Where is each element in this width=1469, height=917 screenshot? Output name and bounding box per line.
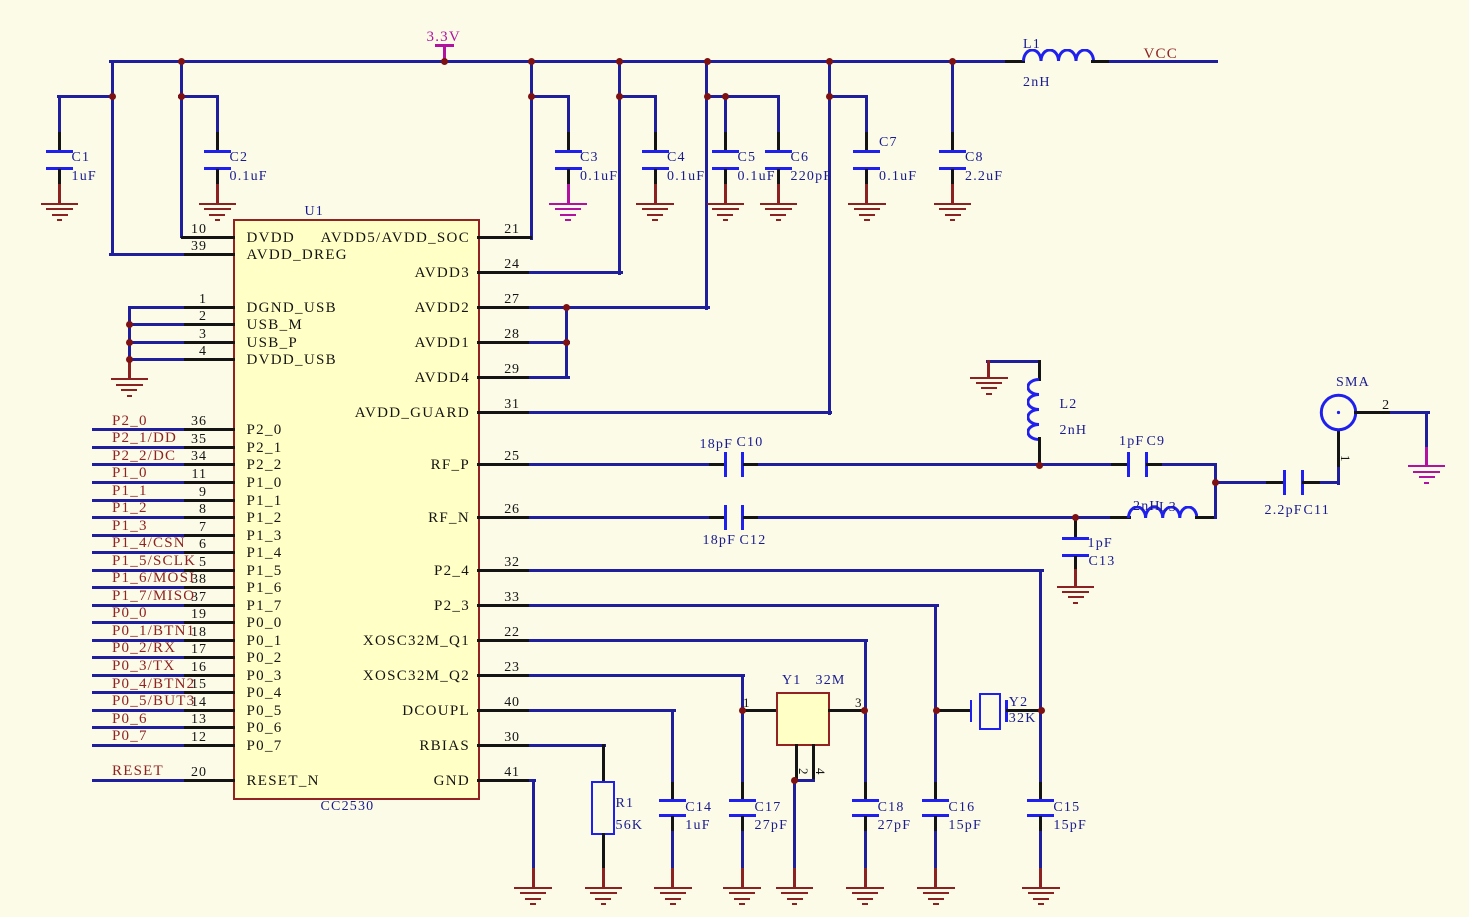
wire C13 top — [1074, 516, 1077, 523]
node P0_0 net label — [112, 606, 148, 620]
wire net P0_5/BUT3 — [92, 709, 184, 712]
wire XOSC32M_Q2 to corner — [529, 674, 745, 677]
capacitor C4 — [0, 0, 1469, 1]
crystal Y1 body — [776, 692, 830, 746]
node P1_0 net label — [112, 466, 148, 480]
ground below C17 — [0, 0, 1469, 1]
label L3 value 2nH — [1133, 500, 1161, 514]
wire pin 30 stub right (RBIAS) — [477, 744, 532, 747]
ground below C1 — [0, 0, 1469, 1]
pin number 31 — [472, 398, 552, 412]
pin name P0_6 — [247, 721, 283, 735]
label VCC power port — [1144, 47, 1178, 61]
pin name P0_4 — [247, 686, 283, 700]
pin name AVDD5/AVDD_SOC — [250, 231, 470, 245]
wire C16 to ground — [934, 831, 937, 871]
pin number 14 — [0, 696, 207, 710]
wire Y1 pin4 stub — [812, 744, 815, 782]
wire RF_P C10 to L2 node — [758, 463, 1041, 466]
wire pin 6 stub left (P1_4) — [181, 551, 236, 554]
pin number 4 — [0, 345, 207, 359]
wire C12 left pin — [709, 516, 725, 519]
junction Y2 right node — [1038, 707, 1045, 714]
node P0_1/BTN1 net label — [112, 624, 195, 638]
capacitor C18 — [0, 0, 1469, 1]
junction rail x620 — [616, 58, 623, 65]
label SMA — [1336, 376, 1370, 390]
label C18 value 27pF — [878, 819, 912, 833]
pin number 9 — [0, 486, 207, 500]
label C12 — [740, 534, 767, 548]
wire L2 top pin — [1038, 360, 1041, 382]
label C8 — [965, 151, 984, 165]
wire C15 top pin — [1039, 782, 1042, 802]
wire C17 bottom pin — [741, 816, 744, 834]
wire SMA pin2 stub — [1354, 411, 1393, 414]
pin number 3 of Y1 — [855, 696, 863, 710]
label C15 — [1053, 801, 1080, 815]
wire net P2_2/DC — [92, 463, 184, 466]
pin name P0_2 — [247, 651, 283, 665]
wire Q2 drop to Y1 pin1 — [741, 674, 744, 712]
wire RF_P L2 node to C9 — [1038, 463, 1114, 466]
wire RF node to C11 — [1214, 481, 1269, 484]
wire net RESET — [92, 779, 184, 782]
wire pin 19 stub left (P0_0) — [181, 621, 236, 624]
capacitor C15 — [0, 0, 1469, 1]
pin number 7 — [0, 521, 207, 535]
label C3 — [580, 151, 599, 165]
capacitor C7 — [0, 0, 1469, 1]
pin number 28 — [472, 328, 552, 342]
pin name P1_4 — [247, 546, 283, 560]
wire C11 right pin — [1302, 481, 1322, 484]
pin name P0_3 — [247, 669, 283, 683]
pin name AVDD3 — [250, 266, 470, 280]
pin number 36 — [0, 415, 207, 429]
pin name GND — [250, 774, 470, 788]
wire C13 top pin — [1074, 520, 1077, 540]
junction 3.3V on rail — [441, 58, 448, 65]
wire net P1_3 — [92, 534, 184, 537]
wire pin 28 stub right (AVDD1) — [477, 341, 532, 344]
label C3 value 0.1uF — [580, 170, 618, 184]
pin number 16 — [0, 661, 207, 675]
wire C14 ground stem — [671, 868, 674, 889]
ground at L2 — [0, 0, 1469, 1]
wire C11 to SMA corner — [1320, 481, 1341, 484]
label L3 — [1159, 501, 1177, 515]
inductor L2 — [1027, 378, 1041, 441]
node P1_6/MOSI net label — [112, 571, 195, 585]
wire net P0_6 — [92, 726, 184, 729]
power ground at SMA — [0, 0, 1469, 1]
connector SMA circle — [1318, 392, 1359, 433]
wire C14 top pin — [671, 782, 674, 802]
node P0_3/TX net label — [112, 659, 175, 673]
wire C15 bottom pin — [1039, 816, 1042, 834]
wire pin31 AVDD_GUARD to riser — [529, 411, 832, 414]
wire net P1_6/MOSI — [92, 586, 184, 589]
wire C3 branch horizontal — [530, 95, 569, 98]
wire C7 top — [865, 95, 868, 135]
wire pin 22 stub right (XOSC32M_Q1) — [477, 639, 532, 642]
pin number 5 — [0, 556, 207, 570]
label C5 — [738, 151, 757, 165]
wire C7 branch horizontal — [828, 95, 868, 98]
label L1 — [1023, 38, 1041, 52]
pin number 3 — [0, 328, 207, 342]
wire pin 2 stub left (USB_M) — [181, 323, 236, 326]
label R1 — [616, 797, 635, 811]
wire pin 8 stub left (P1_2) — [181, 516, 236, 519]
wire AVDD tie vertical x567 — [565, 306, 568, 379]
wire C7 top pin — [865, 132, 868, 152]
node P1_3 net label — [112, 519, 148, 533]
wire C8 ground stem — [951, 184, 954, 205]
pin number 19 — [0, 608, 207, 622]
wire C3 ground stem magenta — [567, 184, 570, 205]
power symbol 3.3V — [435, 44, 454, 47]
capacitor C10 — [0, 0, 1469, 1]
label C7 value 0.1uF — [879, 170, 917, 184]
junction RF_N at C13 — [1072, 514, 1079, 521]
ground below C4 — [0, 0, 1469, 1]
pin number 25 — [472, 450, 552, 464]
junction C4 branch — [616, 93, 623, 100]
pin number 6 — [0, 538, 207, 552]
wire L3 left pin — [1110, 516, 1131, 519]
wire USB_P horizontal — [128, 341, 184, 344]
wire L2 top horizontal — [986, 360, 1041, 363]
wire C7 bottom pin — [865, 169, 868, 188]
capacitor C11 — [0, 0, 1469, 1]
node P1_7/MISO net label — [112, 589, 195, 603]
label C6 — [791, 151, 810, 165]
pin number 13 — [0, 713, 207, 727]
wire riser x829 rail to AVDD_GUARD row — [828, 60, 831, 416]
junction AVDD1 tie — [563, 339, 570, 346]
pin number 2 of Y1 rotated — [796, 768, 810, 775]
wire Q1 drop to Y1 pin3 — [864, 639, 867, 712]
junction C5 top — [722, 93, 729, 100]
ground below C14 — [0, 0, 1469, 1]
wire C1 ground stem — [58, 184, 61, 205]
wire C5 ground stem — [724, 184, 727, 205]
wire net P0_2/RX — [92, 656, 184, 659]
junction rail x829 — [826, 58, 833, 65]
node P1_5/SCLK net label — [112, 554, 196, 568]
wire L2 bottom pin — [1038, 437, 1041, 466]
capacitor C14 — [0, 0, 1469, 1]
label C10 — [737, 436, 764, 450]
node RESET net label — [112, 764, 164, 778]
pin name USB_P — [247, 336, 299, 350]
ground below C15 — [0, 0, 1469, 1]
pin name RESET_N — [247, 774, 320, 788]
pin number 22 — [472, 626, 552, 640]
capacitor C3 — [0, 0, 1469, 1]
ground below C13 — [0, 0, 1469, 1]
label C4 — [667, 151, 686, 165]
node P2_2/DC net label — [112, 449, 176, 463]
ground below C5 — [0, 0, 1469, 1]
wire pin 23 stub right (XOSC32M_Q2) — [477, 674, 532, 677]
connector SMA pin1 number — [1338, 455, 1352, 462]
wire C9 left pin — [1111, 463, 1129, 466]
label 3.3V — [427, 30, 461, 44]
pin number 2 — [0, 310, 207, 324]
wire C7 ground stem — [865, 184, 868, 205]
node P0_7 net label — [112, 729, 148, 743]
pin name AVDD4 — [250, 371, 470, 385]
wire C6 top — [777, 95, 780, 135]
wire pin 20 stub left (RESET_N) — [181, 779, 236, 782]
wire C5 C6 branch horizontal — [705, 95, 780, 98]
wire net P0_3/TX — [92, 674, 184, 677]
wire net P0_4/BTN2 — [92, 691, 184, 694]
wire riser x620 rail to pin24 row — [618, 60, 621, 275]
wire net P1_0 — [92, 481, 184, 484]
wire pin 41 stub right (GND) — [477, 779, 532, 782]
wire USB ground stem — [128, 358, 131, 380]
pin name P1_0 — [247, 476, 283, 490]
wire pin 4 stub left (DVDD_USB) — [181, 358, 236, 361]
junction C3 branch — [528, 93, 535, 100]
wire C6 top pin — [777, 132, 780, 152]
pin name AVDD1 — [250, 336, 470, 350]
junction Y2 left node — [933, 707, 940, 714]
capacitor C5 — [0, 0, 1469, 1]
label C14 — [685, 801, 712, 815]
wire net P0_0 — [92, 621, 184, 624]
wire pin 21 stub right (AVDD5/AVDD_SOC) — [477, 236, 532, 239]
pin number 1 — [0, 293, 207, 307]
wire pin 14 stub left (P0_5) — [181, 709, 236, 712]
wire Y1 ground stem — [793, 868, 796, 889]
wire DCOUPL to C14 — [529, 709, 676, 712]
wire vertical x181 to DVDD pin — [180, 60, 183, 239]
pin name RF_P — [250, 458, 470, 472]
pin number 17 — [0, 643, 207, 657]
wire SMA pin1 lower — [1337, 464, 1340, 485]
wire pin 26 stub right (RF_N) — [477, 516, 532, 519]
wire XOSC32M_Q1 to corner — [529, 639, 868, 642]
label L1 value 2nH — [1023, 76, 1051, 90]
wire C1 branch horizontal — [57, 95, 114, 98]
pin name DCOUPL — [250, 704, 470, 718]
pin number 33 — [472, 591, 552, 605]
wire C5 bottom pin — [724, 169, 727, 188]
wire GND drop — [532, 779, 535, 871]
wire C10 right pin — [743, 463, 761, 466]
label CC2530 part name — [321, 800, 375, 814]
wire P2_3 to corner — [529, 604, 939, 607]
wire pin 17 stub left (P0_2) — [181, 656, 236, 659]
label U1 designator — [305, 205, 325, 219]
pin number 20 — [0, 766, 207, 780]
junction rail x181 — [178, 58, 185, 65]
pin number 38 — [0, 573, 207, 587]
node P2_1/DD net label — [112, 431, 177, 445]
pin number 24 — [472, 258, 552, 272]
pin number 2 of SMA — [1346, 399, 1426, 413]
wire C4 ground stem — [654, 184, 657, 205]
pin name DGND_USB — [247, 301, 337, 315]
wire C4 top — [654, 95, 657, 135]
wire L3 corner up to RF node — [1214, 481, 1217, 519]
wire Y1 ground tie — [793, 779, 815, 782]
capacitor C13 — [0, 0, 1469, 1]
wire RF_N chip to C12 — [529, 516, 714, 519]
wire C14 to ground — [671, 831, 674, 871]
wire GND ground stem — [532, 868, 535, 889]
wire C16 top pin — [934, 782, 937, 802]
label L2 — [1060, 398, 1078, 412]
wire C2 branch horizontal — [178, 95, 219, 98]
junction rail x531 — [528, 58, 535, 65]
pin name DVDD — [247, 231, 296, 245]
resistor R1 — [591, 781, 615, 835]
wire L2 ground stem — [987, 360, 990, 378]
wire pin 1 stub left (DGND_USB) — [181, 306, 236, 309]
wire VCC segment right of L1 — [1109, 60, 1218, 63]
wire C17 drop — [741, 709, 744, 786]
wire RF match corner down — [1214, 463, 1217, 483]
wire net P2_1/DD — [92, 446, 184, 449]
pin number 21 — [472, 223, 552, 237]
pin number 26 — [472, 503, 552, 517]
pin name P2_3 — [250, 599, 470, 613]
wire C12 right pin — [743, 516, 761, 519]
wire P2_3 drop to Y2 — [934, 604, 937, 712]
node P0_6 net label — [112, 712, 148, 726]
pin name USB_M — [247, 318, 304, 332]
wire riser x531 rail to pin21 — [530, 60, 533, 240]
wire RF_N C12 to C13 node — [758, 516, 1077, 519]
label C10 value 18pF — [700, 438, 734, 452]
wire pin27 AVDD2 to riser — [529, 306, 710, 309]
wire R1 ground stem — [602, 868, 605, 889]
wire C18 top pin — [864, 782, 867, 802]
node P1_2 net label — [112, 501, 148, 515]
pin number 10 — [0, 223, 207, 237]
wire Y2 left pin — [934, 709, 971, 712]
wire pin24 AVDD3 to riser — [529, 271, 623, 274]
wire pin 9 stub left (P1_1) — [181, 499, 236, 502]
label C12 value 18pF — [703, 534, 737, 548]
wire RF_P C9 to corner — [1162, 463, 1217, 466]
pin number 27 — [472, 293, 552, 307]
pin number 37 — [0, 591, 207, 605]
junction RF_P at L2 — [1036, 462, 1043, 469]
pin name DVDD_USB — [247, 353, 337, 367]
wire net P0_1/BTN1 — [92, 639, 184, 642]
wire C18 bottom pin — [864, 816, 867, 834]
wire R1 top pin — [602, 744, 605, 783]
junction Y1 ground node — [791, 777, 798, 784]
pin name P1_3 — [247, 529, 283, 543]
wire C5 top — [724, 95, 727, 135]
pin name AVDD_GUARD — [250, 406, 470, 420]
pin name P1_2 — [247, 511, 283, 525]
wire C1 top pin — [58, 132, 61, 152]
label C2 value 0.1uF — [230, 170, 268, 184]
pin name P0_1 — [247, 634, 283, 648]
pin name RF_N — [250, 511, 470, 525]
junction C7 branch — [826, 93, 833, 100]
wire rail left drop to AVDD_DREG — [111, 60, 114, 257]
wire riser x707 rail to pin27 row — [705, 60, 708, 310]
wire pin28 AVDD1 to tie — [529, 341, 570, 344]
pin number 18 — [0, 626, 207, 640]
wire C4 branch horizontal — [618, 95, 656, 98]
wire C3 top — [567, 95, 570, 135]
label C1 — [72, 151, 91, 165]
pin name P2_2 — [247, 458, 283, 472]
wire C15 drop — [1039, 709, 1042, 786]
wire pin 12 stub left (P0_7) — [181, 744, 236, 747]
wire C8 top — [951, 60, 954, 135]
label C13 — [1089, 555, 1116, 569]
wire C3 bottom pin — [567, 169, 570, 188]
wire C3 top pin — [567, 132, 570, 152]
wire SMA ground drop — [1425, 411, 1428, 450]
wire P2_4 to corner — [529, 569, 1044, 572]
pin name AVDD_DREG — [247, 248, 348, 262]
node P1_4/CSN net label — [112, 536, 186, 550]
wire C1 bottom pin — [58, 169, 61, 188]
pin number 34 — [0, 450, 207, 464]
junction Y1 pin1 node — [739, 707, 746, 714]
capacitor C2 — [0, 0, 1469, 1]
label Y2 value 32K — [1009, 712, 1037, 726]
label C4 value 0.1uF — [667, 170, 705, 184]
wire net P1_5/SCLK — [92, 569, 184, 572]
wire pin 10 stub left (DVDD) — [181, 236, 236, 239]
wire pin 7 stub left (P1_3) — [181, 534, 236, 537]
wire C14 bottom pin — [671, 816, 674, 834]
ground below C16 — [0, 0, 1469, 1]
junction DVDD_USB — [126, 356, 133, 363]
ground below C8 — [0, 0, 1469, 1]
junction USB_P — [126, 339, 133, 346]
label C11 — [1304, 504, 1330, 518]
wire Y1 pin1 — [741, 709, 779, 712]
label C18 — [878, 801, 905, 815]
pin name P0_0 — [247, 616, 283, 630]
wire pin stub left of L1 — [1005, 60, 1026, 63]
wire pin 40 stub right (DCOUPL) — [477, 709, 532, 712]
capacitor C1 — [0, 0, 1469, 1]
junction USB_M — [126, 321, 133, 328]
node P0_4/BTN2 net label — [112, 677, 195, 691]
pin number 30 — [472, 731, 552, 745]
pin name P2_4 — [250, 564, 470, 578]
power ground below C3 — [0, 0, 1469, 1]
wire pin 18 stub left (P0_1) — [181, 639, 236, 642]
wire P2_4 drop to Y2 — [1039, 569, 1042, 712]
wire C2 top pin — [216, 132, 219, 152]
pin number 40 — [472, 696, 552, 710]
capacitor C6 — [0, 0, 1469, 1]
wire C4 top pin — [654, 132, 657, 152]
wire 3.3V power rail left segment — [109, 60, 1009, 63]
wire C2 ground stem — [216, 184, 219, 205]
wire C13 ground stem — [1074, 569, 1077, 588]
ground below C2 — [0, 0, 1469, 1]
pin number 15 — [0, 678, 207, 692]
